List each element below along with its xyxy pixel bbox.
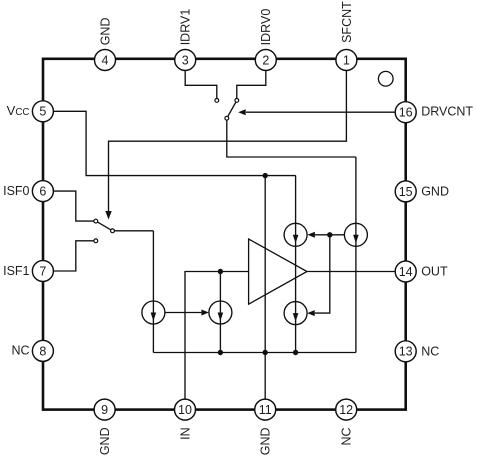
wire IN pin10 to U1 input (185, 272, 249, 400)
switch S2 common contact (111, 229, 115, 233)
svg-text:8: 8 (39, 344, 46, 358)
pin 1 circle (336, 50, 357, 71)
svg-text:VCC: VCC (7, 103, 30, 118)
svg-text:16: 16 (399, 106, 413, 120)
arrow into I5 (201, 310, 209, 316)
svg-text:ISF1: ISF1 (3, 264, 29, 278)
svg-text:NC: NC (340, 427, 354, 445)
wire vertical through I4 (152, 231, 154, 353)
pin 10 circle (175, 399, 196, 420)
arrow SFCNT down (105, 211, 111, 220)
arrow into I1 (307, 232, 315, 238)
svg-text:11: 11 (259, 403, 272, 417)
svg-text:3: 3 (182, 53, 189, 67)
pin 16 circle (395, 102, 416, 123)
IC body outline (43, 59, 406, 410)
wire ground rail (153, 352, 356, 354)
wire switch S1 common to I2 (227, 120, 356, 157)
junction node rail I3 (293, 350, 298, 355)
pin 4 circle (95, 50, 116, 71)
svg-text:13: 13 (399, 345, 413, 359)
switch S1 contact right (235, 99, 239, 103)
svg-text:4: 4 (102, 53, 109, 67)
wire node to pin11 (264, 176, 266, 400)
pin 3 circle (175, 50, 196, 71)
svg-text:OUT: OUT (421, 265, 448, 279)
svg-text:12: 12 (339, 403, 353, 417)
wire IDRV0 pin2 to switch (237, 71, 266, 99)
pin 9 circle (94, 399, 115, 420)
svg-text:1: 1 (343, 53, 350, 67)
switch S1 contact left (215, 99, 219, 103)
svg-text:2: 2 (262, 53, 269, 67)
svg-text:5: 5 (39, 105, 46, 119)
current source I2 (344, 223, 367, 246)
svg-text:NC: NC (421, 344, 439, 358)
wire switch S2 common (114, 230, 153, 232)
svg-text:IDRV0: IDRV0 (259, 9, 273, 46)
switch S2 arm (96, 221, 113, 231)
switch S1 arm (227, 100, 237, 118)
pin 1 indicator circle (378, 71, 393, 86)
svg-text:NC: NC (11, 344, 29, 358)
pin 14 circle (395, 261, 416, 282)
wire VCC pin5 to node (53, 111, 295, 175)
junction node rail pin11 (263, 350, 268, 355)
arrow inside I1 (293, 235, 299, 244)
arrow into I3 (307, 310, 315, 316)
svg-text:15: 15 (399, 185, 413, 199)
pin 13 circle (395, 341, 416, 362)
svg-text:GND: GND (259, 427, 273, 455)
current source I5 (209, 301, 232, 324)
arrow DRVCNT left (238, 109, 246, 115)
svg-text:GND: GND (421, 184, 449, 198)
op-amp U1 (249, 239, 307, 304)
wire DRVCNT pin16 control (246, 111, 395, 113)
pin 6 circle (32, 181, 53, 202)
svg-text:GND: GND (98, 427, 112, 455)
switch S2 contact lower (94, 239, 98, 243)
svg-text:DRVCNT: DRVCNT (421, 105, 473, 119)
arrow inside I5 (218, 313, 224, 322)
current source I3 (284, 302, 307, 325)
switch S2 contact upper (94, 219, 98, 223)
pin 5 circle (32, 101, 53, 122)
pin 12 circle (336, 399, 357, 420)
svg-text:9: 9 (101, 403, 108, 417)
current source I1 (284, 223, 307, 246)
wire SFCNT pin1 control (109, 71, 347, 212)
svg-text:GND: GND (98, 18, 112, 46)
junction node on input line (218, 269, 223, 274)
junction node rail I5 (218, 350, 223, 355)
svg-text:IDRV1: IDRV1 (179, 9, 193, 46)
junction node between I1 I2 (327, 232, 332, 237)
arrow inside I4 (151, 313, 157, 322)
pin 8 circle (32, 340, 53, 361)
wire vertical through I2 to rail (355, 157, 357, 353)
wire ISF0 pin6 to switch (53, 191, 94, 221)
arrow inside I2 (353, 235, 359, 244)
svg-text:6: 6 (39, 185, 46, 199)
wire I2 to I1 (315, 234, 345, 236)
switch S1 common contact (225, 116, 229, 120)
svg-text:14: 14 (399, 265, 413, 279)
pin 11 circle (255, 399, 276, 420)
svg-text:ISF0: ISF0 (3, 184, 29, 198)
pin 15 circle (395, 181, 416, 202)
pin 7 circle (32, 261, 53, 282)
wire ISF1 pin7 to switch (53, 241, 94, 271)
svg-text:7: 7 (39, 264, 46, 278)
pin 2 circle (255, 50, 276, 71)
wire IDRV1 pin3 to switch (185, 71, 217, 99)
wire I4 to I5 (165, 312, 202, 314)
svg-text:10: 10 (178, 403, 192, 417)
current source I4 (142, 301, 165, 324)
arrow inside I3 (293, 313, 299, 322)
wire vertical through I1 I3 to rail (295, 176, 297, 353)
wire U1 output to pin14 (307, 271, 395, 273)
svg-text:IN: IN (178, 427, 192, 440)
junction node on VCC line (263, 173, 268, 178)
wire vertical through I5 (219, 272, 221, 353)
svg-text:SFCNT: SFCNT (340, 1, 354, 43)
wire node to I3 (315, 235, 330, 313)
